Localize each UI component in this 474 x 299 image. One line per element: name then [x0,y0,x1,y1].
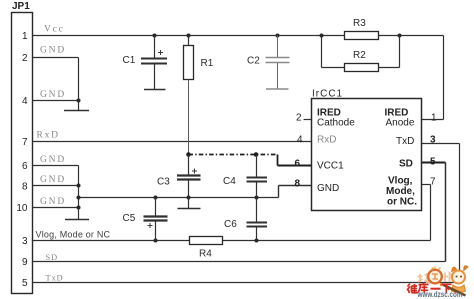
wire GND pin8 horizontal [33,185,79,187]
connector net name labels [37,25,66,283]
resistor R3 body [345,32,379,40]
svg-text:5: 5 [430,157,436,168]
node pins2-4 junction [77,99,81,103]
svg-text:GND: GND [317,183,339,194]
svg-text:3: 3 [430,135,436,146]
capacitor C2 plates [266,57,290,59]
capacitor C6 plates [247,222,268,224]
svg-text:1: 1 [431,113,437,124]
svg-text:R1: R1 [201,58,214,69]
wire GND rail horizontal [79,197,279,199]
watermark mascot [440,266,468,296]
capacitor C2 ground bar [266,88,289,90]
svg-text:Cathode: Cathode [317,118,355,129]
wire R2 branch left horizontal [322,67,345,69]
IC inner text [317,108,417,208]
capacitor C5 lead bottom [155,221,157,241]
IC IrCC1 outline [312,99,422,211]
wire IC pin3 TxD stub [422,143,460,145]
svg-text:6: 6 [22,161,28,172]
svg-text:VCC1: VCC1 [317,161,344,172]
svg-text:10: 10 [16,203,28,214]
polarity plus C1 [158,50,163,55]
wire R2 branch right horizontal [379,67,400,69]
ground stub pins2-4 [78,101,80,111]
wire VCC1 corner vertical [277,155,279,166]
svg-text:TxD: TxD [46,273,64,283]
svg-text:C5: C5 [123,213,136,224]
wire IC pin6 stub [278,165,312,167]
watermark light char zhao [418,273,431,283]
capacitor C5 lead top [155,198,157,217]
svg-text:R4: R4 [199,249,212,260]
svg-text:R2: R2 [353,50,366,61]
svg-text:R3: R3 [353,18,366,29]
svg-text:Mode,: Mode, [386,186,415,197]
svg-text:C6: C6 [224,219,237,230]
node R2R3 left junction [320,34,324,38]
wire SD pin9 horizontal [33,261,446,263]
wire Vcc right corner vertical to IC pin1 [443,36,445,120]
wire IC pin2 stub [304,119,312,121]
capacitor C4 plates [247,177,268,179]
resistor R1 body [184,46,194,80]
capacitor C3 lead top [188,155,190,176]
svg-text:Vlog, Mode or NC: Vlog, Mode or NC [36,230,111,240]
svg-text:4: 4 [297,135,303,146]
wire IC pin7 stub [422,184,431,186]
node C2 top junction [276,34,280,38]
node C5 rail junction [154,196,158,200]
capacitor C5 plates [144,215,168,217]
IC pin numbers [295,113,438,190]
component value labels [123,18,367,260]
capacitor C4 lead top [256,155,258,178]
wire GND pin6-10 vertical [78,166,80,208]
wire pin8 corner vertical [278,186,280,198]
node pin8 junction [77,184,81,188]
svg-text:C3: C3 [157,177,170,188]
wire IC pin5 SD stub [422,162,446,164]
svg-text:GND: GND [40,46,66,56]
svg-text:GND: GND [40,197,66,207]
wire SD vertical [445,163,447,262]
watermark seal circle [428,270,442,284]
wire TxD vertical [459,144,461,283]
node C3 rail junction [187,196,191,200]
svg-text:SD: SD [46,252,58,262]
wire TxD pin5 horizontal [33,282,460,284]
wire Vcc pin1 horizontal [33,35,444,37]
svg-text:C4: C4 [223,176,236,187]
resistor R4 body [190,237,223,245]
svg-text:9: 9 [22,257,28,268]
svg-text:GND: GND [40,175,66,185]
svg-text:2: 2 [22,53,28,64]
svg-text:TxD: TxD [396,136,414,147]
node R1 top junction [187,34,191,38]
wire R2 branch right vertical [399,36,401,68]
svg-text:4: 4 [22,96,28,107]
wire pin7 vertical to Vlog [430,185,432,241]
svg-text:Vcc: Vcc [44,25,65,35]
wire GND pin2-pin4 vertical [78,58,80,101]
ground bar pins2-4 [64,110,89,112]
node pin10 junction [77,206,81,210]
wire RxD pin7 horizontal to IC pin4 [33,141,312,143]
node dashed-mid junction [254,152,259,157]
node gnd rail junction [77,196,81,200]
ground bar C3 [178,208,201,210]
svg-text:Anode: Anode [386,118,415,129]
node C1 top junction [153,34,157,38]
polarity plus C3 [192,169,197,174]
wire GND pin4 horizontal [33,100,79,102]
capacitor C1 plates [141,58,167,60]
capacitor C1 ground bar [144,89,166,91]
svg-text:GND: GND [40,90,66,100]
wire GND pin2 horizontal [33,57,79,59]
wire Vlog pin3 horizontal [33,240,431,242]
wire dashed VCC1 net [189,154,278,156]
watermark red text wei ku yi xia [407,283,452,294]
resistor R2 body [345,64,379,72]
svg-text:www.dzsc.com: www.dzsc.com [417,290,463,299]
ground stub pins6-10 [78,208,80,220]
capacitor C4 lead bottom [256,182,258,198]
wire IC pin1 stub [422,119,444,121]
node dashed-left junction [186,152,191,157]
connector JP1 outline [12,13,33,294]
svg-text:RxD: RxD [37,131,60,141]
resistor R1 lead bottom [188,80,190,155]
node C5 vlog junction [154,239,158,243]
svg-text:C2: C2 [247,56,260,67]
polarity plus C5 [148,223,153,228]
wire GND pin6 horizontal [33,165,79,167]
capacitor C6 lead top [256,198,258,223]
svg-text:7: 7 [430,177,436,188]
ground bar pins6-10 [65,219,89,221]
svg-text:8: 8 [295,179,301,190]
svg-text:6: 6 [295,159,301,170]
svg-text:JP1: JP1 [12,1,30,12]
node C4 rail junction [255,196,259,200]
wire IC pin8 stub [279,185,312,187]
svg-text:RxD: RxD [317,135,336,146]
svg-text:or NC.: or NC. [387,197,417,208]
svg-text:3: 3 [22,236,28,247]
svg-text:7: 7 [22,137,28,148]
svg-text:SD: SD [399,159,413,170]
resistor R1 lead top [188,36,190,46]
wire GND pin10 horizontal [33,207,79,209]
capacitor C3 plates [177,174,201,176]
ground stub C3 [188,198,190,209]
svg-text:2: 2 [296,113,302,124]
svg-text:C1: C1 [123,55,136,66]
svg-text:8: 8 [22,182,28,193]
svg-text:Vlog,: Vlog, [388,176,413,187]
capacitor C2 leads [277,36,279,58]
watermark light char pian [445,272,454,282]
capacitor C3 lead bottom [188,180,190,198]
connector pin numbers [16,31,28,289]
wire R2 branch left vertical [321,36,323,68]
svg-text:5: 5 [22,278,28,289]
svg-text:GND: GND [40,155,66,165]
node C6 vlog junction [255,239,259,243]
svg-text:IrCC1: IrCC1 [312,89,343,100]
capacitor C6 lead bottom [256,227,258,241]
node R2R3 right junction [398,34,402,38]
svg-text:1: 1 [22,31,28,42]
capacitor C1 leads [154,36,156,59]
